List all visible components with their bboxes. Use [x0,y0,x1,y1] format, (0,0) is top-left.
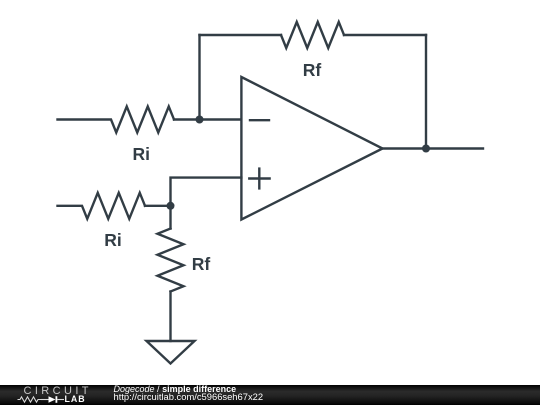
logo resistor squiggle [18,397,42,402]
node: non-inverting junction [167,202,175,210]
label Rf (feedback resistor) [303,62,321,80]
op-amp U1 [241,77,382,220]
wire: feedback left vertical [198,35,200,120]
footer url [114,392,264,402]
wire: junction up and right to op-amp plus input [171,178,242,206]
wire: Ri to op-amp inverting input [174,118,241,120]
wire: Rf to feedback right vertical [344,34,426,36]
node: output junction [422,145,430,153]
logo diode symbol [49,396,58,403]
wire: output [383,147,484,149]
logo wire to LAB [57,399,64,401]
label Ri (non-inverting input resistor) [104,232,122,250]
wire: Rf to ground [169,292,171,342]
resistor Ri (inverting input) [58,107,175,133]
op-amp inverting input symbol (minus) [250,119,269,121]
node: inverting input junction [196,116,204,124]
op-amp non-inverting input symbol (plus) [249,169,269,189]
label Ri (inverting input resistor) [133,146,151,164]
CircuitLab logo: CIRCUIT wordmark [24,387,92,395]
logo wire to diode [41,399,49,401]
resistor Ri (non-inverting input) [58,193,146,219]
resistor Rf (feedback) [281,22,344,48]
resistor Rf (to ground) [158,229,184,292]
logo LAB wordmark [65,395,86,404]
wire: top horizontal to Rf [200,34,282,36]
footer bar [0,385,540,405]
wire: Ri to non-inverting junction [145,205,171,207]
CircuitLab logo: resistor-diode-LAB row [0,385,90,405]
wire: junction down to Rf [169,206,171,229]
label Rf (ground resistor) [192,256,210,274]
wire: feedback right vertical [425,35,427,149]
ground [147,341,195,364]
footer title: Dogecode / simple difference [114,385,237,394]
